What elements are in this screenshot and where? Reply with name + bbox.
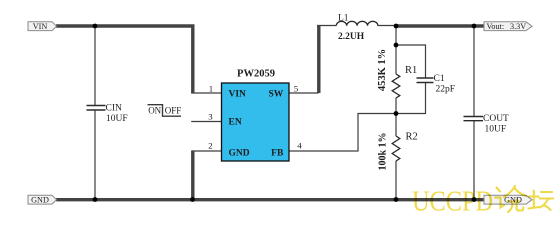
inductor L1 [336,21,378,26]
svg-text:R2: R2 [406,131,418,142]
junction dot FB node [394,111,399,116]
wire vertical SW riser [317,26,320,93]
svg-text:22pF: 22pF [436,85,456,95]
junction dot C1 top [394,43,399,48]
junction dot VIN-CIN [93,24,98,29]
switch label ON/OFF waveform [148,105,182,117]
resistor R2 [392,136,400,161]
watermark UCCPD forum logo [412,186,554,218]
svg-text:CIN: CIN [106,104,123,114]
wire R2 top [395,114,397,137]
svg-text:GND: GND [31,196,49,205]
junction dot R2-GND [394,197,399,202]
capacitor CIN [87,106,106,111]
port tag GND left [28,195,57,204]
port tag GND right [484,195,532,204]
svg-text:ON: ON [148,106,161,116]
svg-text:10UF: 10UF [485,124,507,134]
svg-text:PW2059: PW2059 [237,68,275,79]
wire COUT branch vertical [473,26,475,200]
junction dot COUT-GND [472,197,477,202]
svg-text:COUT: COUT [483,114,509,124]
wire FB pin4 run [289,114,396,152]
wire vertical GND pin2 down to bottom bus [191,151,194,200]
svg-text:VIN: VIN [33,22,48,31]
wire pin1 to chip [191,92,221,94]
wire vertical VIN down to pin1 [191,26,194,93]
svg-text:1: 1 [209,83,213,93]
svg-text:GND: GND [229,148,250,158]
svg-text:VIN: VIN [229,90,247,100]
capacitor COUT [464,117,484,121]
wire R1 bottom to node [395,98,397,114]
wire output bus thick segment to Vout tag [396,24,484,27]
svg-text:4: 4 [297,140,302,150]
svg-text:L1: L1 [338,13,349,23]
wire C1 top branch [396,45,426,78]
svg-text:SW: SW [269,90,284,100]
port tag VIN [28,22,57,31]
wire bottom GND bus [56,198,484,201]
svg-text:3.3V: 3.3V [510,22,526,31]
svg-text:OFF: OFF [165,106,182,116]
svg-text:2: 2 [208,140,212,150]
wire pin3 EN stub [191,121,221,123]
svg-text:453K 1%: 453K 1% [377,49,388,91]
resistor R1 [392,74,400,98]
svg-text:EN: EN [229,118,242,128]
wire C1 bottom branch [396,83,426,114]
svg-text:Vout:: Vout: [487,22,505,31]
svg-text:3: 3 [208,111,213,121]
svg-text:R1: R1 [405,65,417,76]
port tag Vout 3.3V [484,22,532,31]
wire pin2 GND to chip [191,150,221,152]
svg-text:2.2UH: 2.2UH [338,32,365,42]
wire pin5 SW to riser [289,92,319,94]
capacitor C1 [417,78,434,83]
svg-text:FB: FB [271,148,284,158]
junction dot output bus R1 [394,24,399,29]
svg-text:10UF: 10UF [106,114,128,124]
wire top thin segment corner to inductor [317,25,336,27]
wire CIN branch vertical [94,26,96,200]
svg-text:100k 1%: 100k 1% [378,132,389,170]
wire top bus VIN [56,24,195,27]
junction dot output bus COUT [472,24,477,29]
op-amp U1 PW2059 regulator body [222,83,290,161]
wire R2 bottom to GND bus [395,161,397,200]
junction dot CIN-GND [93,197,98,202]
wire R1 top branch [395,26,397,74]
junction dot chipGND-GND [190,197,195,202]
svg-text:5: 5 [294,83,299,93]
svg-text:UCCPD: UCCPD [412,187,493,216]
svg-text:C1: C1 [434,74,445,84]
wire inductor to node segment [378,25,398,27]
